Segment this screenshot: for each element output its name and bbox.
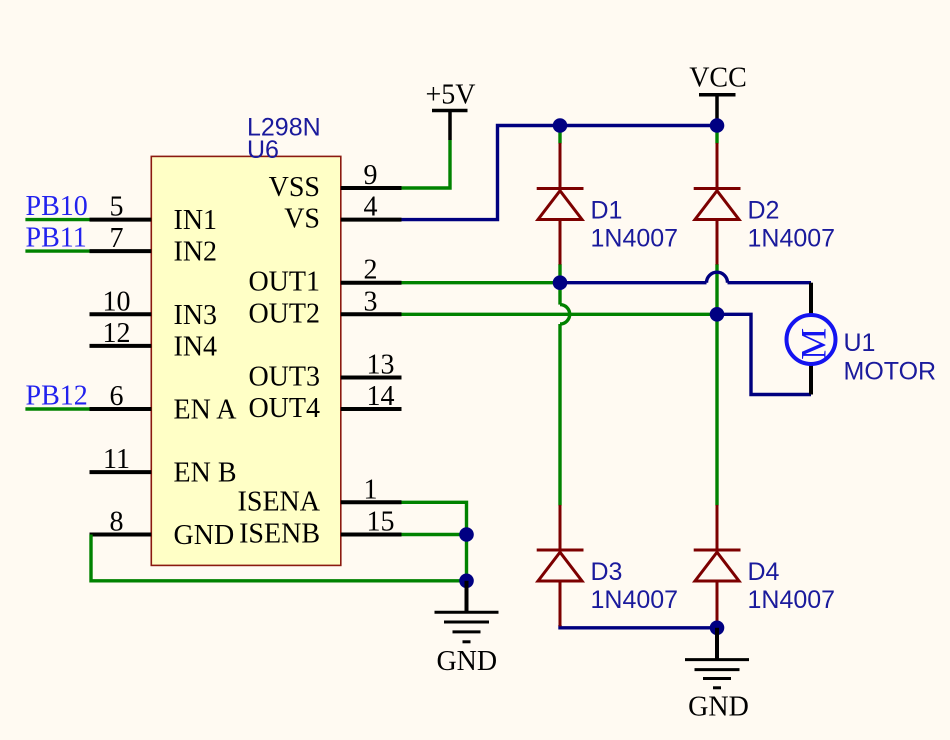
svg-text:VCC: VCC [689, 62, 747, 93]
junction dot GND left [459, 574, 474, 589]
wire OUT2 pin3 to node B [402, 313, 718, 316]
svg-text:3: 3 [364, 286, 378, 317]
svg-text:VSS: VSS [269, 172, 320, 203]
diode D4 [694, 505, 741, 626]
svg-text:MOTOR: MOTOR [844, 357, 937, 385]
svg-text:IN1: IN1 [174, 205, 218, 236]
svg-text:IN4: IN4 [174, 331, 218, 362]
motor U1 body circle [787, 315, 836, 364]
svg-text:15: 15 [367, 507, 395, 538]
svg-text:5: 5 [110, 192, 124, 223]
wire node B to motor bottom [717, 314, 811, 394]
wire PB11 to pin 7 [25, 249, 89, 252]
wire VS pin4 to VCC rail [402, 126, 718, 220]
svg-text:D1: D1 [591, 197, 623, 225]
svg-text:OUT4: OUT4 [248, 393, 320, 424]
svg-text:12: 12 [103, 318, 131, 349]
wire node A to motor top, left part [560, 281, 707, 284]
svg-text:OUT2: OUT2 [248, 298, 320, 329]
pin 6 stub (EN A) [90, 407, 152, 411]
power +5V pin [448, 111, 452, 141]
svg-text:6: 6 [110, 381, 124, 412]
svg-text:U6: U6 [247, 136, 279, 164]
wire D1 bottom to node A [558, 264, 561, 283]
wire VSS pin9 to +5V [402, 140, 451, 188]
ground symbol left pin [465, 581, 469, 611]
svg-text:PB11: PB11 [26, 223, 87, 254]
svg-text:D3: D3 [591, 558, 623, 586]
svg-text:GND: GND [688, 692, 749, 723]
svg-text:VS: VS [284, 204, 320, 235]
pin 8 stub (GND) [90, 533, 152, 537]
junction dot top left [553, 118, 568, 133]
junction dot top right VCC [710, 118, 725, 133]
wire PB10 to pin 5 [25, 218, 89, 221]
junction dot GND right [710, 621, 725, 636]
svg-text:EN B: EN B [174, 458, 237, 489]
wire D2 top stub [715, 126, 718, 144]
svg-text:ISENA: ISENA [238, 486, 321, 517]
svg-text:1N4007: 1N4007 [591, 225, 679, 253]
motor U1 pin bottom [809, 364, 813, 395]
pin 13 stub (OUT3) [341, 376, 402, 380]
svg-text:U1: U1 [844, 329, 876, 357]
wire hop over OUT2 [560, 305, 570, 324]
svg-text:7: 7 [110, 223, 124, 254]
ground symbol right bars [685, 660, 749, 688]
svg-text:D4: D4 [748, 558, 780, 586]
svg-text:14: 14 [367, 381, 395, 412]
wire node A to D3 [558, 324, 561, 506]
svg-text:OUT3: OUT3 [248, 362, 320, 393]
svg-text:IN3: IN3 [174, 300, 218, 331]
svg-text:4: 4 [364, 192, 378, 223]
svg-text:1N4007: 1N4007 [748, 586, 836, 614]
pin 14 stub (OUT4) [341, 407, 402, 411]
wire hop over D2-D4 column [707, 272, 728, 283]
pin 12 stub (IN4) [90, 344, 152, 348]
power +5V bar [432, 109, 468, 113]
svg-text:9: 9 [364, 160, 378, 191]
ground symbol right pin [715, 628, 719, 659]
junction dot ISENB [459, 527, 474, 542]
power VCC pin [715, 95, 719, 119]
pin 15 stub (ISENB) [341, 533, 402, 537]
svg-text:+5V: +5V [425, 80, 475, 111]
junction node A [553, 275, 568, 290]
svg-text:1N4007: 1N4007 [748, 225, 836, 253]
pin 11 stub (EN B) [90, 470, 152, 474]
svg-text:1N4007: 1N4007 [591, 586, 679, 614]
pin 3 stub (OUT2) [341, 312, 402, 316]
svg-text:GND: GND [174, 520, 235, 551]
svg-text:ISENB: ISENB [239, 519, 320, 550]
IC U6 body [151, 156, 340, 565]
svg-text:D2: D2 [748, 197, 780, 225]
svg-text:PB12: PB12 [26, 381, 88, 412]
pin 10 stub (IN3) [90, 312, 152, 316]
svg-text:PB10: PB10 [26, 191, 88, 222]
wire D3 D4 bottoms [560, 625, 717, 628]
wire PB12 to pin 6 [25, 407, 89, 410]
diode D3 [537, 505, 584, 626]
wire D1 top stub [558, 126, 561, 144]
pin 5 stub (IN1) [90, 218, 152, 222]
motor U1 pin top [809, 283, 813, 316]
svg-text:11: 11 [103, 444, 130, 475]
ground symbol left bars [435, 612, 499, 642]
junction node B [710, 307, 725, 322]
svg-text:10: 10 [103, 286, 131, 317]
wire D2 bottom to node B [715, 264, 718, 314]
diode D2 [694, 143, 741, 265]
svg-text:IN2: IN2 [174, 237, 218, 268]
pin 1 stub (ISENA) [341, 500, 402, 504]
pin 7 stub (IN2) [90, 249, 152, 253]
pin 2 stub (OUT1) [341, 281, 402, 285]
svg-text:1: 1 [364, 474, 378, 505]
svg-text:GND: GND [436, 646, 497, 677]
pin 9 stub (VSS) [341, 186, 402, 190]
wire node B to D4 [715, 314, 718, 505]
wire ISENB pin15 [402, 533, 467, 536]
svg-text:M: M [794, 328, 834, 360]
wire OUT1 pin2 to node A [402, 281, 561, 284]
wire hop to motor top [728, 281, 812, 284]
pin 4 stub (VS) [341, 218, 402, 222]
wire ISENA pin1 [402, 502, 467, 581]
svg-text:13: 13 [367, 350, 395, 381]
wire GND pin8 [91, 535, 467, 581]
diode D1 [537, 143, 584, 265]
svg-text:EN A: EN A [174, 395, 238, 426]
svg-text:2: 2 [364, 255, 378, 286]
svg-text:8: 8 [110, 507, 124, 538]
power VCC bar [699, 93, 736, 97]
wire node A down segment above hop [558, 283, 561, 305]
svg-text:OUT1: OUT1 [248, 267, 320, 298]
